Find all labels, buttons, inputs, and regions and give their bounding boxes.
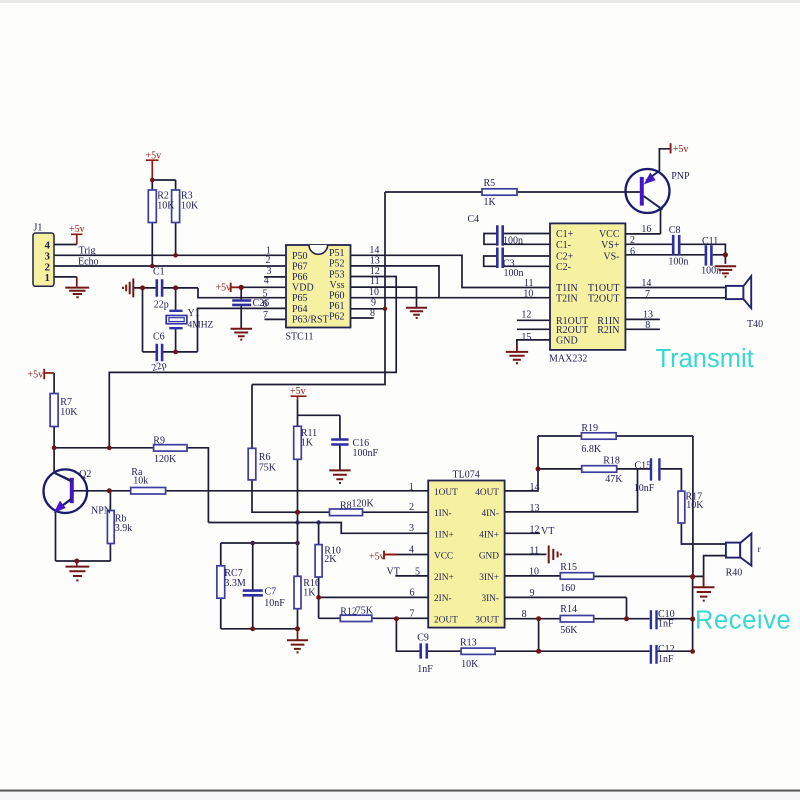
- svg-text:P63/RST: P63/RST: [292, 314, 329, 325]
- svg-text:2: 2: [630, 235, 635, 246]
- svg-text:12: 12: [521, 310, 531, 321]
- svg-text:4: 4: [264, 276, 269, 287]
- svg-text:13: 13: [530, 503, 540, 514]
- svg-text:P51: P51: [329, 248, 345, 259]
- svg-text:R15: R15: [560, 562, 577, 573]
- svg-text:8: 8: [645, 320, 650, 331]
- svg-text:VCC: VCC: [599, 229, 620, 240]
- svg-text:P64: P64: [292, 304, 308, 315]
- svg-text:13: 13: [643, 310, 653, 321]
- svg-text:10k: 10k: [133, 476, 148, 487]
- svg-text:C7: C7: [265, 587, 277, 598]
- svg-text:R8: R8: [340, 501, 352, 512]
- svg-text:R2OUT: R2OUT: [556, 325, 588, 336]
- svg-text:GND: GND: [479, 552, 499, 562]
- svg-text:100n: 100n: [504, 268, 524, 279]
- svg-text:+5v: +5v: [28, 370, 44, 381]
- svg-text:1K: 1K: [303, 587, 316, 598]
- svg-text:6: 6: [410, 587, 415, 598]
- svg-text:VDD: VDD: [292, 283, 314, 294]
- svg-text:Receive: Receive: [695, 607, 791, 635]
- svg-text:P65: P65: [292, 293, 308, 304]
- svg-text:14: 14: [530, 482, 540, 493]
- svg-text:C6: C6: [153, 332, 165, 343]
- svg-text:12: 12: [530, 524, 540, 535]
- svg-text:3.9k: 3.9k: [115, 523, 133, 534]
- svg-text:3: 3: [409, 523, 414, 534]
- svg-text:6.8K: 6.8K: [581, 444, 602, 455]
- svg-text:C2-: C2-: [556, 262, 571, 273]
- svg-text:3IN-: 3IN-: [481, 594, 499, 604]
- svg-text:6: 6: [630, 247, 635, 258]
- svg-text:C1+: C1+: [556, 229, 574, 240]
- svg-text:2: 2: [409, 502, 414, 513]
- svg-text:P67: P67: [292, 261, 308, 272]
- svg-text:C15: C15: [635, 461, 652, 472]
- svg-text:120K: 120K: [352, 498, 375, 509]
- svg-text:10nF: 10nF: [264, 598, 285, 609]
- svg-text:R5: R5: [484, 178, 496, 189]
- svg-text:+5v: +5v: [69, 224, 85, 235]
- svg-text:11: 11: [530, 545, 540, 556]
- svg-text:1K: 1K: [301, 438, 314, 449]
- svg-text:22p: 22p: [154, 300, 169, 311]
- svg-text:100n: 100n: [503, 235, 523, 246]
- svg-text:R14: R14: [560, 604, 577, 615]
- svg-text:R2IN: R2IN: [597, 325, 619, 336]
- svg-text:Echo: Echo: [78, 256, 99, 267]
- svg-text:9: 9: [530, 588, 535, 599]
- svg-text:10nF: 10nF: [634, 483, 655, 494]
- svg-text:T40: T40: [747, 319, 763, 330]
- svg-text:VS-: VS-: [603, 252, 619, 263]
- svg-text:10K: 10K: [157, 201, 175, 212]
- svg-text:9: 9: [371, 298, 376, 309]
- svg-text:T2OUT: T2OUT: [588, 294, 620, 305]
- svg-text:C1: C1: [153, 267, 165, 278]
- svg-text:C4: C4: [468, 214, 480, 225]
- svg-text:5: 5: [263, 289, 268, 300]
- svg-text:47K: 47K: [605, 474, 623, 485]
- svg-text:4MHZ: 4MHZ: [188, 321, 214, 331]
- svg-text:160: 160: [560, 583, 575, 594]
- svg-text:1IN+: 1IN+: [434, 530, 454, 540]
- svg-text:Transmit: Transmit: [656, 345, 754, 373]
- svg-text:10: 10: [529, 566, 539, 577]
- svg-text:15: 15: [521, 332, 531, 343]
- svg-text:R13: R13: [460, 638, 477, 649]
- svg-text:VS+: VS+: [601, 240, 620, 251]
- svg-text:+5v: +5v: [146, 151, 162, 162]
- svg-text:2K: 2K: [324, 554, 337, 565]
- svg-text:MAX232: MAX232: [549, 353, 587, 364]
- svg-text:Trig: Trig: [79, 246, 96, 257]
- svg-text:13: 13: [370, 255, 380, 266]
- svg-text:R12: R12: [340, 607, 357, 618]
- svg-text:6: 6: [263, 299, 268, 310]
- svg-text:1OUT: 1OUT: [434, 488, 458, 498]
- svg-text:P52: P52: [329, 259, 345, 270]
- svg-text:120K: 120K: [154, 454, 177, 465]
- svg-text:4IN+: 4IN+: [479, 530, 499, 540]
- svg-text:VT: VT: [541, 526, 554, 537]
- svg-text:7: 7: [263, 310, 268, 321]
- svg-text:2IN+: 2IN+: [434, 573, 454, 583]
- svg-text:Vss: Vss: [329, 280, 344, 291]
- svg-text:STC11: STC11: [286, 332, 314, 343]
- svg-text:10K: 10K: [60, 407, 78, 418]
- svg-text:T2IN: T2IN: [556, 294, 578, 305]
- svg-text:C8: C8: [669, 225, 681, 236]
- svg-text:1K: 1K: [484, 197, 497, 208]
- svg-text:+5v: +5v: [369, 552, 385, 563]
- svg-text:NPN: NPN: [91, 506, 111, 517]
- svg-text:12: 12: [370, 266, 380, 277]
- svg-text:P53: P53: [329, 269, 345, 280]
- svg-text:+5v: +5v: [673, 144, 689, 155]
- svg-text:VT: VT: [387, 567, 400, 578]
- svg-text:R18: R18: [603, 455, 620, 466]
- svg-text:2IN-: 2IN-: [434, 594, 452, 604]
- svg-text:7: 7: [410, 608, 415, 619]
- svg-text:Q2: Q2: [79, 469, 91, 480]
- svg-text:1nF: 1nF: [658, 619, 674, 630]
- svg-text:P50: P50: [292, 251, 308, 262]
- svg-text:+5v: +5v: [216, 283, 232, 294]
- svg-text:VCC: VCC: [434, 552, 453, 562]
- svg-text:C1-: C1-: [556, 240, 571, 251]
- svg-text:Y1: Y1: [188, 308, 200, 319]
- svg-text:4OUT: 4OUT: [475, 488, 499, 498]
- svg-text:3IN+: 3IN+: [479, 573, 499, 583]
- svg-text:100n: 100n: [701, 265, 721, 276]
- svg-text:100n: 100n: [668, 256, 688, 267]
- svg-text:8: 8: [370, 308, 375, 319]
- svg-text:GND: GND: [556, 336, 578, 347]
- svg-text:16: 16: [641, 224, 651, 235]
- svg-text:3.3M: 3.3M: [224, 578, 246, 589]
- svg-text:75K: 75K: [259, 462, 277, 473]
- svg-text:11: 11: [524, 278, 534, 289]
- svg-text:7: 7: [645, 289, 650, 300]
- svg-text:14: 14: [641, 278, 651, 289]
- svg-text:3OUT: 3OUT: [475, 615, 499, 625]
- svg-text:R19: R19: [581, 423, 598, 434]
- svg-text:4: 4: [409, 544, 414, 555]
- svg-text:10: 10: [369, 287, 379, 298]
- svg-text:J1: J1: [34, 223, 43, 234]
- svg-text:100nF: 100nF: [353, 448, 379, 459]
- svg-text:1: 1: [45, 272, 51, 284]
- svg-text:C11: C11: [702, 236, 718, 247]
- svg-text:P62: P62: [329, 312, 345, 323]
- svg-text:10K: 10K: [461, 659, 479, 670]
- svg-text:75K: 75K: [356, 605, 374, 616]
- svg-text:1: 1: [409, 482, 414, 493]
- svg-text:8: 8: [522, 609, 527, 620]
- svg-text:r: r: [758, 544, 761, 554]
- svg-text:C9: C9: [417, 632, 429, 643]
- svg-text:PNP: PNP: [671, 171, 690, 182]
- svg-text:1nF: 1nF: [658, 654, 674, 665]
- svg-text:11: 11: [370, 276, 380, 287]
- svg-text:10: 10: [523, 289, 533, 300]
- svg-text:56K: 56K: [560, 625, 578, 636]
- svg-text:P60: P60: [329, 291, 345, 302]
- svg-text:+5v: +5v: [290, 386, 306, 397]
- svg-text:2OUT: 2OUT: [434, 615, 458, 625]
- svg-text:10K: 10K: [181, 201, 199, 212]
- svg-text:14: 14: [369, 245, 379, 256]
- svg-text:2: 2: [266, 255, 271, 266]
- svg-text:R9: R9: [153, 436, 165, 447]
- svg-text:R40: R40: [726, 567, 743, 578]
- svg-text:TL074: TL074: [453, 469, 480, 480]
- svg-text:1IN-: 1IN-: [434, 509, 452, 519]
- svg-text:1nF: 1nF: [417, 664, 433, 675]
- svg-text:10K: 10K: [686, 500, 704, 511]
- svg-text:4IN-: 4IN-: [481, 509, 499, 519]
- svg-text:P66: P66: [292, 272, 308, 283]
- svg-text:5: 5: [415, 566, 420, 577]
- svg-text:P61: P61: [329, 301, 345, 312]
